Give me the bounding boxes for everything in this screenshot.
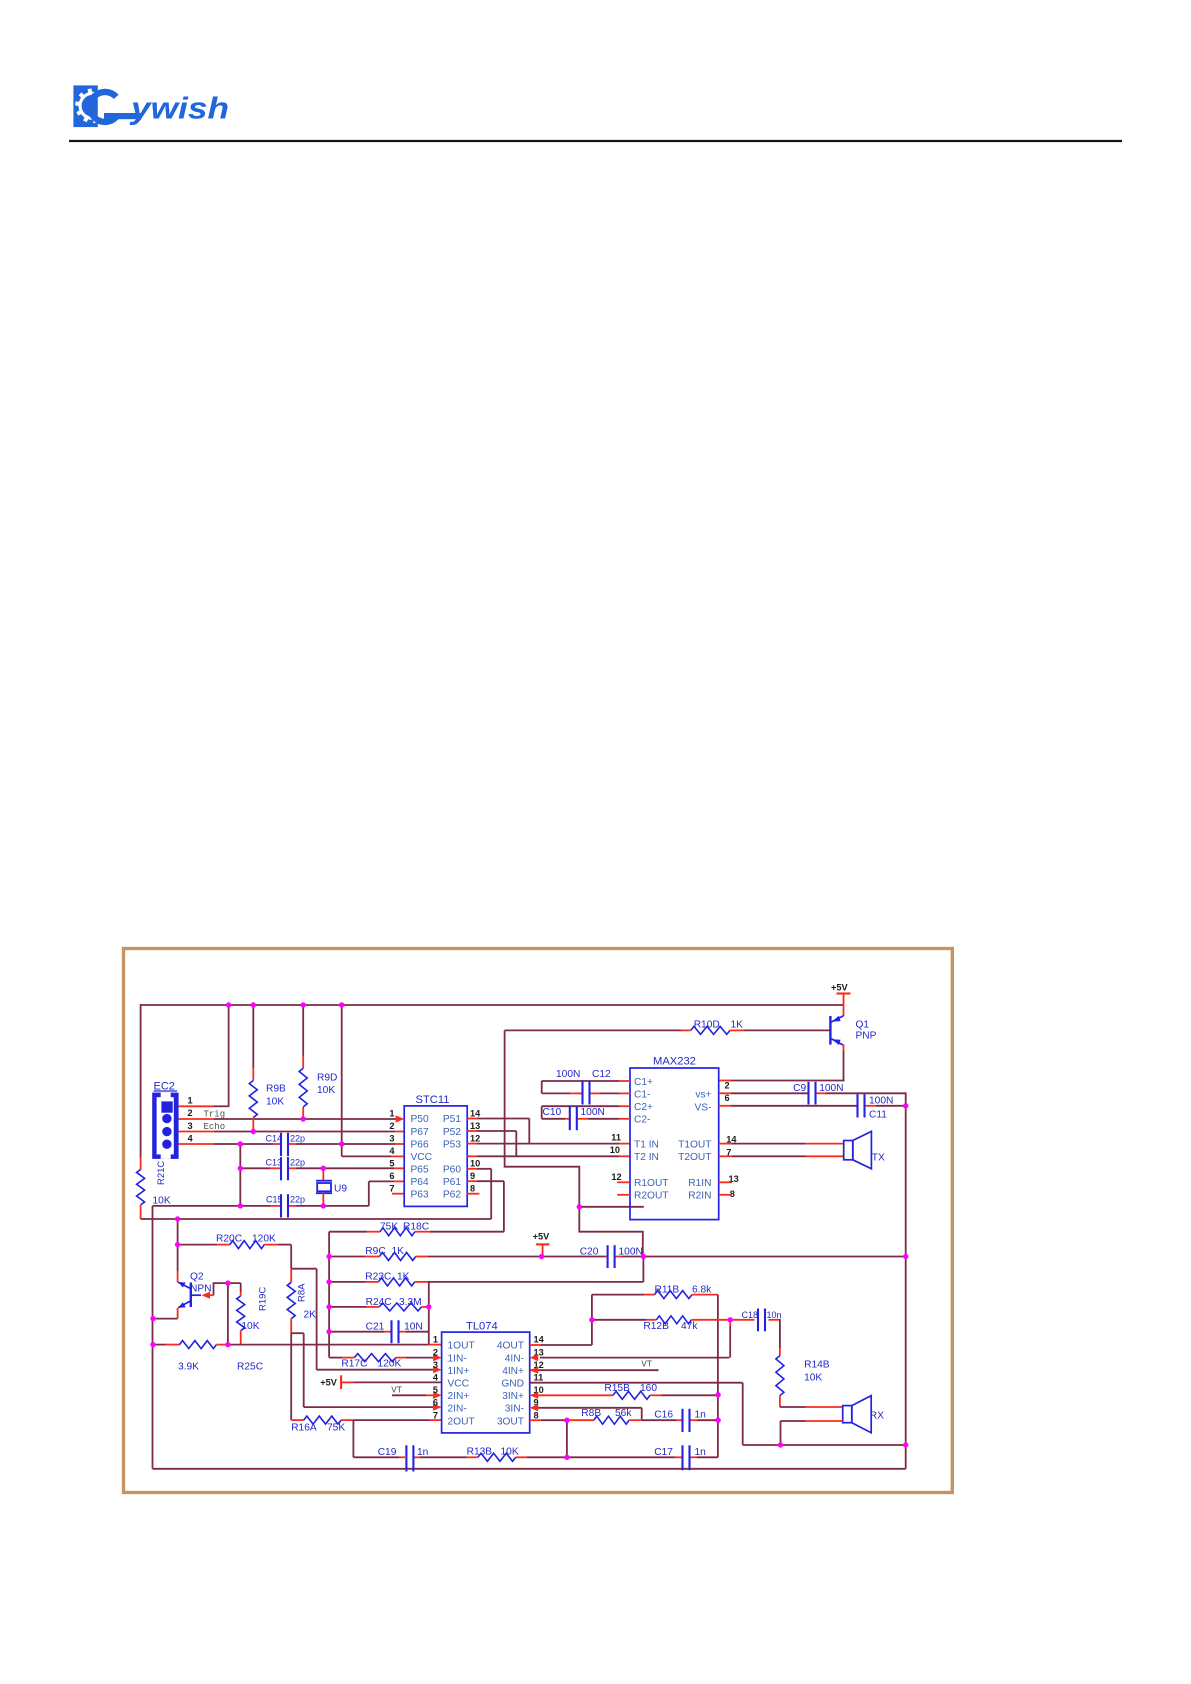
resistor R11B	[592, 1291, 718, 1299]
svg-text:R8A: R8A	[297, 1283, 308, 1302]
svg-text:VT: VT	[641, 1359, 652, 1369]
logo E-arc	[90, 92, 116, 122]
wire Echo row EC2 pin3 to STC11 pin2	[179, 1131, 214, 1133]
wire R9C C20 +5V row	[329, 1256, 365, 1258]
wire EC2 pin1 to +5V bus	[179, 1105, 214, 1107]
logo E-bar	[104, 113, 142, 119]
svg-text:P61: P61	[443, 1177, 461, 1188]
svg-text:R23C: R23C	[365, 1271, 391, 1282]
svg-text:10K: 10K	[241, 1321, 259, 1332]
svg-text:10K: 10K	[266, 1096, 284, 1107]
wire STC11 pin14 to MAX232 T1IN	[467, 1118, 477, 1120]
wire Q1 collector to MAX232 vcc row	[843, 1045, 845, 1051]
svg-text:C19: C19	[378, 1447, 397, 1458]
svg-text:TL074: TL074	[466, 1320, 498, 1332]
svg-text:C13: C13	[266, 1158, 283, 1168]
wire STC11 VCC row to MAX232 T2IN	[467, 1155, 476, 1157]
connector EC2	[152, 1093, 178, 1159]
capacitor C18 with wires	[730, 1319, 754, 1321]
wire MAX232 vs+ row with C9 to right rail	[719, 1092, 731, 1094]
svg-text:R10D: R10D	[694, 1019, 720, 1030]
svg-text:10: 10	[610, 1145, 620, 1155]
svg-text:P63: P63	[411, 1190, 429, 1201]
svg-text:C11: C11	[869, 1109, 887, 1120]
svg-text:R20C: R20C	[216, 1233, 242, 1244]
svg-text:R24C: R24C	[366, 1297, 392, 1308]
speaker TX	[844, 1131, 872, 1168]
wire C16 row	[642, 1419, 676, 1421]
junction dots	[150, 1002, 908, 1460]
resistor R21C	[137, 1158, 145, 1220]
svg-text:1: 1	[433, 1335, 438, 1345]
svg-text:100N: 100N	[556, 1069, 580, 1080]
svg-text:C12: C12	[592, 1069, 611, 1080]
svg-text:vs+: vs+	[695, 1089, 711, 1100]
svg-text:22p: 22p	[290, 1133, 305, 1143]
wire Q2 collector drop	[177, 1245, 179, 1271]
resistor R10D row to Q1 base	[505, 1026, 830, 1034]
wire GND pin11 to ground row	[530, 1382, 743, 1384]
svg-text:Q2: Q2	[190, 1271, 204, 1282]
svg-text:STC11: STC11	[416, 1094, 450, 1106]
svg-text:C16: C16	[654, 1409, 673, 1420]
svg-text:2: 2	[725, 1081, 730, 1091]
svg-text:R9B: R9B	[266, 1084, 286, 1095]
svg-text:R16A: R16A	[291, 1422, 317, 1433]
svg-text:1: 1	[389, 1108, 394, 1118]
svg-text:ywish: ywish	[129, 91, 229, 126]
svg-text:3: 3	[433, 1360, 438, 1370]
svg-text:11: 11	[534, 1373, 544, 1383]
svg-text:R17C: R17C	[341, 1358, 367, 1369]
capacitor C12 loop C1+/C1-	[542, 1081, 630, 1093]
svg-text:T2OUT: T2OUT	[678, 1152, 711, 1163]
svg-text:R19C: R19C	[258, 1287, 269, 1311]
svg-text:3OUT: 3OUT	[497, 1416, 524, 1427]
svg-text:R18C: R18C	[403, 1221, 429, 1232]
svg-text:8: 8	[470, 1184, 475, 1194]
svg-text:6: 6	[389, 1171, 394, 1181]
svg-text:C21: C21	[366, 1321, 385, 1332]
IC MAX232 box	[630, 1068, 719, 1220]
svg-text:75K: 75K	[380, 1221, 398, 1232]
capacitor C13	[280, 1157, 282, 1180]
svg-text:4OUT: 4OUT	[497, 1341, 524, 1352]
svg-text:4: 4	[433, 1373, 439, 1383]
svg-text:T1 IN: T1 IN	[634, 1140, 659, 1151]
wire R23C-R24C-C21 column to TL074 pin1	[428, 1282, 430, 1345]
wire C21 row	[329, 1331, 384, 1333]
wire 4IN+ VT stub	[530, 1369, 659, 1371]
svg-text:P62: P62	[443, 1190, 461, 1201]
wire C13 row to STC11 pin5	[240, 1167, 270, 1169]
svg-text:100N: 100N	[581, 1107, 605, 1118]
svg-text:10n: 10n	[767, 1310, 782, 1320]
wire GND stub into MAX232	[579, 1206, 644, 1208]
svg-text:120K: 120K	[252, 1233, 276, 1244]
svg-text:R9C: R9C	[365, 1246, 385, 1257]
svg-text:22p: 22p	[290, 1158, 305, 1168]
schematic border frame	[124, 949, 953, 1493]
svg-text:C2-: C2-	[634, 1114, 650, 1125]
svg-text:P67: P67	[411, 1127, 429, 1138]
capacitor C10 loop C2+/C2-	[542, 1106, 630, 1119]
svg-text:C2+: C2+	[634, 1102, 653, 1113]
wire mid column R18C to R17C	[328, 1232, 330, 1357]
capacitor C20	[607, 1245, 609, 1268]
svg-text:VCC: VCC	[411, 1152, 433, 1163]
svg-text:1K: 1K	[392, 1246, 405, 1257]
capacitor C16	[681, 1409, 683, 1432]
resistor R8A	[287, 1269, 295, 1420]
svg-text:PNP: PNP	[856, 1030, 877, 1041]
arrow TL074 pin6	[433, 1404, 442, 1411]
wire GND path from R10D row to C20	[505, 1030, 643, 1256]
svg-text:C1-: C1-	[634, 1089, 650, 1100]
resistor R9B	[249, 1004, 257, 1131]
svg-text:R11B: R11B	[655, 1284, 680, 1295]
wire 3OUT row with R8B	[530, 1416, 642, 1424]
svg-text:Trig: Trig	[204, 1110, 226, 1120]
svg-text:R9D: R9D	[317, 1073, 337, 1084]
svg-text:6: 6	[433, 1398, 438, 1408]
MAX232 R1OUT R2OUT stubs	[617, 1181, 630, 1183]
wire STC11 pin13 to MAX232 T2IN	[467, 1130, 477, 1132]
STC11 pin8 stub	[467, 1193, 480, 1195]
wire VT stub to TL074 pin5	[392, 1394, 426, 1396]
wire 3OUT drop to R13B row	[566, 1420, 568, 1457]
svg-text:10K: 10K	[804, 1373, 822, 1384]
svg-text:1n: 1n	[417, 1447, 428, 1458]
wire right rail	[905, 1092, 907, 1468]
wire base riser to R25C row	[227, 1283, 229, 1345]
svg-text:3.9K: 3.9K	[178, 1361, 199, 1372]
svg-text:1OUT: 1OUT	[448, 1341, 475, 1352]
svg-text:1IN-: 1IN-	[448, 1353, 467, 1364]
capacitor C11	[856, 1094, 858, 1117]
svg-text:R8B: R8B	[581, 1408, 601, 1419]
wire MAX232 VS- row with C11	[719, 1105, 731, 1107]
arrow TL074 pin12	[530, 1367, 539, 1374]
svg-text:+5V: +5V	[320, 1377, 337, 1387]
wire R20C to R8A top and 1IN+ branch	[290, 1245, 292, 1269]
svg-text:P50: P50	[411, 1114, 429, 1125]
svg-text:1K: 1K	[397, 1271, 410, 1282]
capacitor C21	[390, 1320, 392, 1343]
svg-text:P66: P66	[411, 1139, 429, 1150]
wire T2OUT to TX	[719, 1155, 732, 1157]
capacitor C14	[280, 1133, 282, 1156]
resistor R13B	[478, 1453, 516, 1461]
svg-text:C10: C10	[543, 1107, 562, 1118]
wire STC11 pin10 to R21C bottom row	[467, 1168, 477, 1170]
svg-text:6: 6	[725, 1093, 730, 1103]
svg-text:100N: 100N	[619, 1246, 643, 1257]
svg-text:1IN+: 1IN+	[448, 1366, 470, 1377]
resistor R24C with row	[329, 1303, 429, 1311]
resistor R15B row 3IN+	[538, 1391, 718, 1399]
svg-text:7: 7	[389, 1184, 394, 1194]
svg-text:C15: C15	[266, 1195, 283, 1205]
wire C19 R13B C17 row	[353, 1456, 399, 1458]
wire T1OUT to TX	[719, 1143, 732, 1145]
svg-text:12: 12	[611, 1172, 621, 1182]
svg-text:C17: C17	[654, 1447, 673, 1458]
svg-text:5: 5	[433, 1385, 438, 1395]
svg-text:4: 4	[188, 1133, 194, 1143]
wire RX bottom to ground row	[806, 1420, 843, 1422]
svg-text:56k: 56k	[615, 1408, 632, 1419]
wire 4OUT column	[530, 1344, 541, 1346]
svg-text:5: 5	[389, 1159, 394, 1169]
svg-text:2: 2	[389, 1121, 394, 1131]
svg-text:75K: 75K	[327, 1422, 345, 1433]
resistor R9C	[379, 1253, 415, 1261]
svg-text:100N: 100N	[819, 1083, 843, 1094]
svg-text:120K: 120K	[378, 1358, 402, 1369]
svg-text:1K: 1K	[731, 1019, 744, 1030]
svg-text:12: 12	[470, 1133, 480, 1143]
svg-text:C1+: C1+	[634, 1077, 653, 1088]
arrow STC11 pin1	[396, 1115, 405, 1122]
STC11 pin7 stub	[392, 1193, 404, 1195]
wire R12B dot to 4IN- row	[729, 1320, 731, 1326]
svg-text:3: 3	[389, 1133, 394, 1143]
svg-text:7: 7	[433, 1410, 438, 1420]
svg-text:T1OUT: T1OUT	[678, 1140, 711, 1151]
svg-text:P64: P64	[411, 1177, 429, 1188]
svg-text:2IN+: 2IN+	[448, 1391, 470, 1402]
svg-text:2: 2	[433, 1347, 438, 1357]
svg-text:11: 11	[611, 1133, 621, 1143]
arrow TL074 pin10	[530, 1392, 539, 1399]
svg-text:R25C: R25C	[237, 1361, 263, 1372]
crystal U9	[316, 1168, 332, 1206]
arrow TL074 pin9	[530, 1404, 539, 1411]
resistor R25C row to TL074 pin1	[153, 1341, 442, 1349]
svg-text:22p: 22p	[290, 1195, 305, 1205]
svg-text:C18: C18	[742, 1310, 759, 1320]
wire left drop from bus to R21C	[140, 1004, 142, 1157]
svg-text:VCC: VCC	[448, 1379, 470, 1390]
svg-text:R15B: R15B	[604, 1383, 630, 1394]
arrow TL074 pin13	[530, 1354, 539, 1361]
svg-text:2: 2	[188, 1108, 193, 1118]
arrow TL074 pin3	[433, 1366, 442, 1373]
arrow TL074 pin5	[433, 1392, 442, 1399]
svg-text:VT: VT	[391, 1385, 402, 1395]
svg-text:Q1: Q1	[856, 1019, 870, 1030]
wire STC11 pin12 row to MAX232 T1IN	[467, 1143, 476, 1145]
MAX232 R1IN R2IN stubs	[719, 1181, 732, 1183]
wire bus drop to C14 row and VCC pin4	[341, 1004, 343, 1144]
svg-text:R2IN: R2IN	[688, 1190, 711, 1201]
svg-text:13: 13	[470, 1121, 480, 1131]
capacitor C9	[807, 1082, 809, 1105]
IC TL074 box	[442, 1332, 530, 1433]
speaker RX	[843, 1396, 872, 1433]
svg-text:Echo: Echo	[204, 1122, 226, 1132]
svg-text:P52: P52	[443, 1127, 461, 1138]
arrow Q2 base	[202, 1292, 211, 1299]
capacitor C19	[405, 1445, 407, 1471]
svg-text:R12B: R12B	[643, 1321, 669, 1332]
svg-text:R1IN: R1IN	[688, 1178, 711, 1189]
svg-text:+5V: +5V	[831, 983, 848, 993]
wire STC11 pin9 to R18C row	[467, 1180, 477, 1182]
svg-text:R2OUT: R2OUT	[634, 1190, 669, 1201]
svg-text:U9: U9	[334, 1184, 347, 1195]
svg-text:10: 10	[470, 1159, 480, 1169]
svg-text:1n: 1n	[695, 1409, 706, 1420]
wire C15 jog to STC11 pin6	[368, 1181, 370, 1206]
logo Keywish gear square	[73, 85, 110, 127]
wire 3IN- to R8B and C16	[538, 1407, 642, 1409]
svg-text:3.3M: 3.3M	[399, 1297, 422, 1308]
resistor R14B to RX	[776, 1319, 843, 1407]
svg-text:P51: P51	[443, 1114, 461, 1125]
svg-text:14: 14	[534, 1335, 545, 1345]
svg-text:2IN-: 2IN-	[448, 1404, 467, 1415]
wire R8A branch to TL074 pin6	[291, 1332, 304, 1334]
svg-text:14: 14	[470, 1108, 481, 1118]
svg-text:P65: P65	[411, 1164, 429, 1175]
svg-text:10N: 10N	[404, 1321, 423, 1332]
svg-text:8: 8	[534, 1410, 539, 1420]
svg-text:10K: 10K	[501, 1447, 519, 1458]
svg-text:9: 9	[470, 1171, 475, 1181]
svg-text:47k: 47k	[681, 1321, 698, 1332]
svg-text:4IN+: 4IN+	[502, 1366, 524, 1377]
svg-text:RX: RX	[870, 1410, 884, 1421]
wire right column R11B to C17	[717, 1295, 719, 1458]
svg-text:R21C: R21C	[156, 1161, 167, 1185]
wire EC2 pin4 / C14 row to STC11 pin3	[179, 1143, 214, 1145]
transistor Q1 PNP	[830, 1016, 843, 1045]
svg-text:2K: 2K	[304, 1309, 317, 1320]
svg-text:2OUT: 2OUT	[448, 1416, 475, 1427]
resistor R17C to TL074 pin2	[329, 1354, 433, 1362]
svg-text:10K: 10K	[317, 1085, 335, 1096]
transistor Q2 NPN	[178, 1282, 201, 1308]
wire Q2 emitter to left rail	[177, 1308, 179, 1319]
wire +5V top bus	[141, 1004, 844, 1006]
svg-text:C9: C9	[793, 1083, 806, 1094]
arrow TL074 pin2	[433, 1354, 442, 1361]
resistor R9D	[299, 1004, 307, 1119]
svg-text:P53: P53	[443, 1139, 461, 1150]
wire C20 dot to R23C row	[642, 1257, 644, 1282]
resistor R19C	[237, 1283, 245, 1345]
svg-text:GND: GND	[501, 1379, 524, 1390]
svg-text:1n: 1n	[695, 1447, 706, 1458]
svg-text:R13B: R13B	[467, 1447, 493, 1458]
svg-text:+5V: +5V	[533, 1231, 550, 1241]
svg-text:VS-: VS-	[695, 1102, 712, 1113]
resistor R18C with row	[329, 1228, 504, 1236]
capacitor C17	[681, 1445, 683, 1470]
wire Trig row EC2 pin2 to STC11 pin1	[179, 1118, 214, 1120]
svg-text:TX: TX	[872, 1153, 885, 1164]
header rule	[69, 140, 1122, 142]
svg-text:6.8k: 6.8k	[692, 1284, 712, 1295]
wire left rail	[152, 1206, 154, 1469]
wire left column R21C-row to R20C row	[177, 1219, 179, 1245]
wire R20C row from left column	[178, 1241, 292, 1249]
wire 2OUT branch to C19 row	[352, 1420, 354, 1457]
svg-text:3IN+: 3IN+	[502, 1391, 524, 1402]
svg-text:160: 160	[640, 1383, 657, 1394]
svg-text:4: 4	[389, 1146, 395, 1156]
svg-text:P60: P60	[443, 1164, 461, 1175]
wire Q2 base network	[210, 1294, 214, 1296]
svg-text:MAX232: MAX232	[653, 1056, 696, 1068]
svg-text:C20: C20	[580, 1246, 599, 1257]
IC STC11 box	[404, 1106, 467, 1207]
wire bottom rail	[153, 1468, 906, 1470]
wire left column C14-C13-C15	[239, 1144, 241, 1206]
svg-text:R14B: R14B	[804, 1360, 830, 1371]
capacitor C15	[280, 1194, 282, 1217]
svg-text:10K: 10K	[153, 1196, 171, 1207]
resistor R23C with row	[329, 1278, 643, 1286]
svg-text:R1OUT: R1OUT	[634, 1178, 669, 1189]
svg-text:4IN-: 4IN-	[505, 1353, 524, 1364]
svg-text:3IN-: 3IN-	[505, 1404, 524, 1415]
wire C15 row	[153, 1205, 241, 1207]
svg-text:C14: C14	[266, 1133, 283, 1143]
svg-text:3: 3	[188, 1121, 193, 1131]
svg-text:100N: 100N	[869, 1095, 893, 1106]
svg-text:T2 IN: T2 IN	[634, 1152, 659, 1163]
resistor R12B	[592, 1316, 730, 1324]
resistor R16A row 2OUT	[291, 1416, 441, 1424]
svg-text:1: 1	[188, 1096, 193, 1106]
